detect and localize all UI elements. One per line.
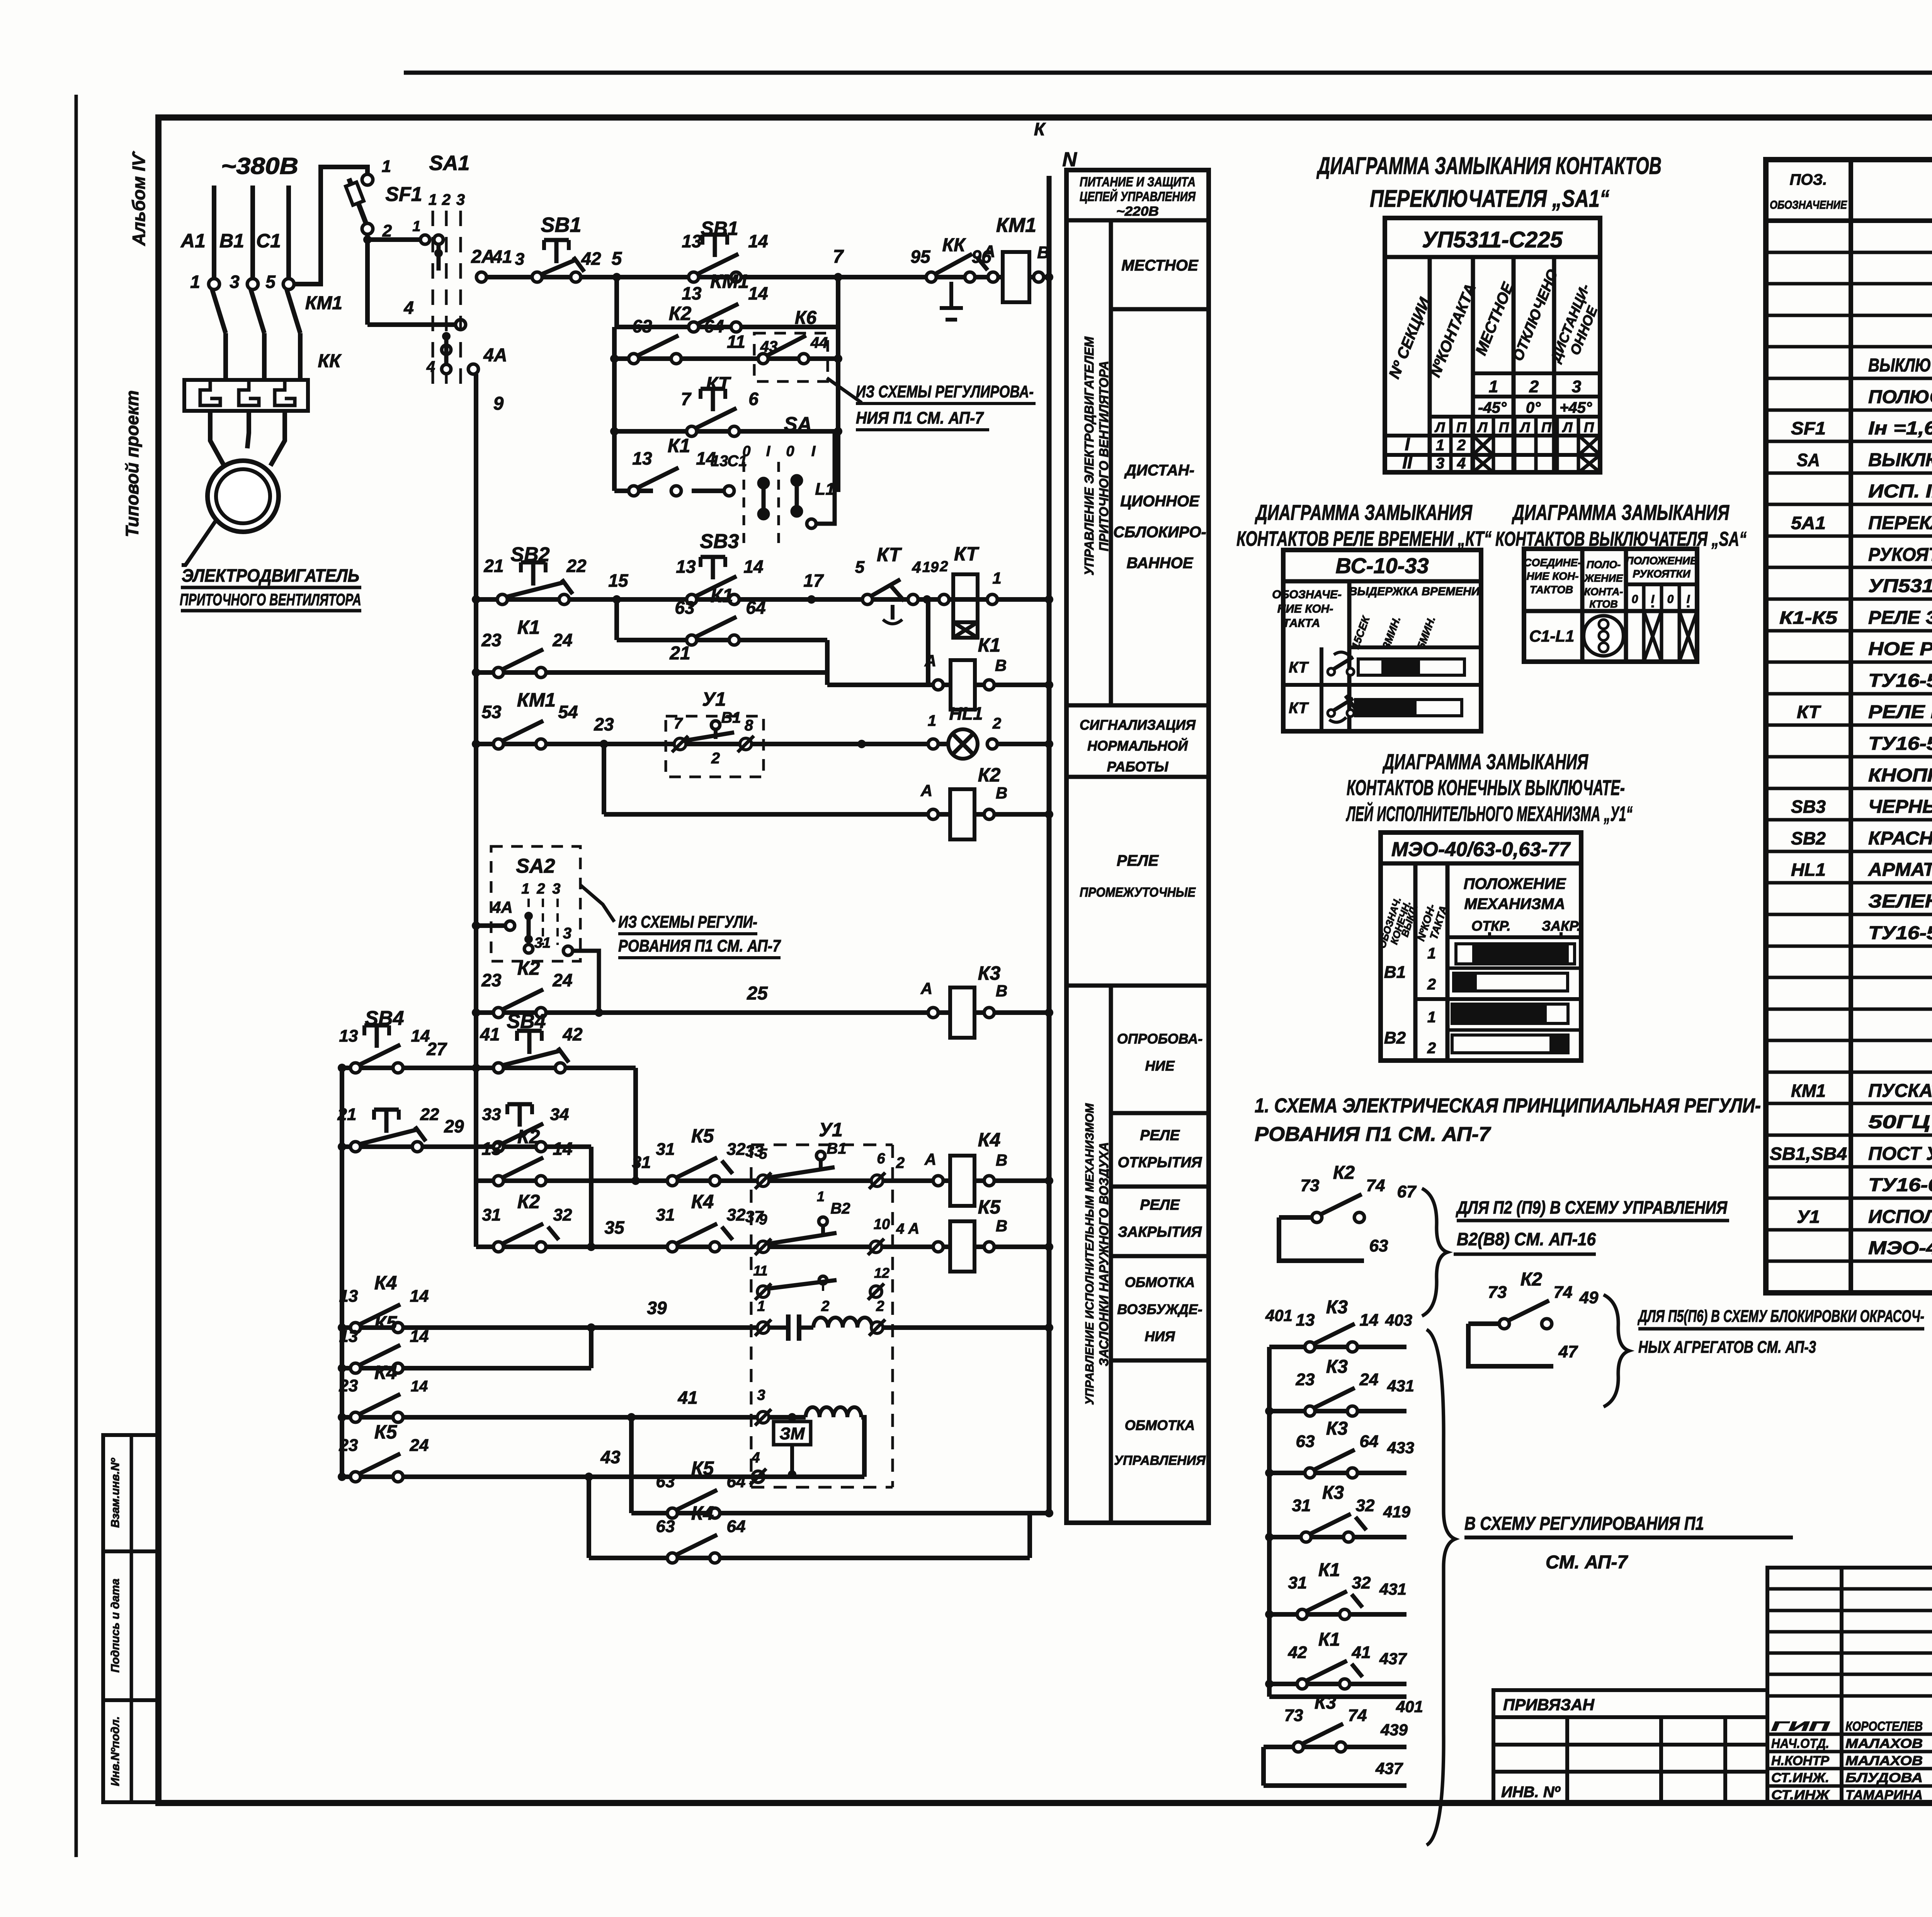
svg-text:64: 64 [746,598,765,618]
terminal A K1 [933,680,943,690]
svg-text:К1: К1 [978,634,1001,656]
wire rung20 [342,1366,591,1371]
contact K2 31-32 break [493,1242,503,1252]
terminal 1 KT [987,594,997,604]
svg-text:ВС-10-33: ВС-10-33 [1335,553,1429,578]
svg-text:23: 23 [481,630,502,650]
svg-text:32: 32 [727,1205,746,1224]
svg-text:П: П [1584,419,1594,435]
terminal B K2 [984,809,994,819]
svg-text:4А: 4А [492,898,513,916]
parts table outer [1766,160,1932,1293]
svg-text:ИСП. III, ~220В, ОСТ16.0.526.0: ИСП. III, ~220В, ОСТ16.0.526.001-77 [1868,481,1932,502]
svg-text:КТ: КТ [706,373,731,395]
svg-text:14: 14 [748,283,768,303]
motor label leader [182,520,216,565]
svg-text:ДЛЯ П2 (П9) В СХЕМУ УПРАВЛЕНИЯ: ДЛЯ П2 (П9) В СХЕМУ УПРАВЛЕНИЯ [1456,1197,1728,1217]
svg-text:I: I [1405,434,1410,454]
svg-text:К4: К4 [374,1362,397,1383]
wire rung1 [481,275,993,279]
svg-text:КОРОСТЕЛЕВ: КОРОСТЕЛЕВ [1845,1719,1923,1734]
svg-text:N: N [1062,148,1077,171]
svg-text:КНОПКА КЕ-011У3, ИСП.2, ТУ16-6: КНОПКА КЕ-011У3, ИСП.2, ТУ16-642.015-84 [1868,765,1932,786]
svg-text:АРМАТУРА СВЕТОСИГНАЛЬНАЯ С: АРМАТУРА СВЕТОСИГНАЛЬНАЯ С [1868,860,1932,880]
terminal B KM1 [1034,272,1044,282]
contact KT delayed [687,426,697,436]
svg-text:7: 7 [833,247,844,267]
svg-text:I: I [1687,593,1690,606]
svg-text:14: 14 [748,231,768,251]
svg-text:К2: К2 [517,1126,540,1147]
svg-text:HL1: HL1 [1791,860,1826,880]
wire rung15 [342,1144,591,1149]
svg-text:SB3: SB3 [700,530,739,553]
wire K1 coil line [827,683,933,687]
svg-text:ПРИТОЧНОГО ВЕНТИЛЯТОРА: ПРИТОЧНОГО ВЕНТИЛЯТОРА [180,591,361,609]
svg-text:ПОЛОЖЕНИЕ: ПОЛОЖЕНИЕ [1464,875,1566,892]
svg-text:431: 431 [1379,1580,1406,1598]
wire rung16 [476,1178,933,1183]
limit U1 phi5 [757,1175,769,1187]
svg-text:23: 23 [1296,1370,1315,1389]
svg-text:МЕСТНОЕ: МЕСТНОЕ [1121,257,1199,274]
wire SA to right [807,519,816,528]
button SB1 break [532,272,542,282]
svg-text:В2: В2 [1384,1028,1406,1047]
relay K6 dashed box [754,333,828,381]
svg-text:34: 34 [550,1105,569,1124]
svg-text:64: 64 [727,1472,746,1491]
leader iz shemy SA2 [580,885,614,922]
svg-text:К2: К2 [1520,1269,1543,1290]
svg-text:13: 13 [711,453,728,470]
svg-text:13: 13 [481,1139,502,1159]
svg-text:ТУ16-535.930-76: ТУ16-535.930-76 [1868,923,1932,943]
parts table header row [1766,218,1932,223]
wire to SA pole [692,489,724,493]
SA2 terminal 3 [563,946,573,955]
svg-text:~220В: ~220В [1116,204,1159,219]
svg-text:ПУСКАТЕЛЬ МАГНИТНЫЙ С КАТУШКОЙ: ПУСКАТЕЛЬ МАГНИТНЫЙ С КАТУШКОЙ ~220В, [1868,1080,1932,1101]
contact K4 63-64 [667,1553,677,1563]
svg-text:Подпись и дата: Подпись и дата [109,1578,122,1672]
wire rung19 to bus [883,1325,1049,1330]
svg-text:0: 0 [742,443,750,460]
svg-text:2: 2 [939,558,948,575]
svg-text:5А1: 5А1 [1791,513,1826,533]
svg-text:1: 1 [521,881,529,897]
wire rung8 [476,670,827,675]
svg-text:К2: К2 [517,1191,540,1212]
svg-text:22: 22 [566,556,587,576]
svg-text:РЕЛЕ ЭЛЕКТРОМАГНИТНОЕ УНИВЕРСА: РЕЛЕ ЭЛЕКТРОМАГНИТНОЕ УНИВЕРСАЛЬ- [1868,608,1932,628]
svg-text:2: 2 [821,1298,829,1314]
svg-text:419: 419 [1383,1503,1411,1521]
svg-text:64: 64 [704,316,724,336]
svg-text:ЗАКРЫТИЯ: ЗАКРЫТИЯ [1118,1224,1202,1240]
svg-text:ДИАГРАММА ЗАМЫКАНИЯ КОНТАКТОВ: ДИАГРАММА ЗАМЫКАНИЯ КОНТАКТОВ [1316,153,1662,179]
svg-text:31: 31 [656,1140,675,1159]
svg-text:31: 31 [632,1153,651,1172]
contact K2 13-14 [493,1176,503,1186]
svg-text:С1-L1: С1-L1 [1529,627,1575,645]
fragment K2b brace [1604,1295,1629,1407]
svg-text:ЗАСЛОНКИ НАРУЖНОГО ВОЗДУХА: ЗАСЛОНКИ НАРУЖНОГО ВОЗДУХА [1097,1142,1111,1366]
svg-text:6: 6 [748,389,759,409]
svg-text:ОПРОБОВА-: ОПРОБОВА- [1117,1031,1203,1047]
svg-text:ВЫКЛЮЧАТЕЛЬ ПАКЕТНЫЙ ПВ1-10У3: ВЫКЛЮЧАТЕЛЬ ПАКЕТНЫЙ ПВ1-10У3 00Б, [1868,449,1932,470]
svg-text:ПОЛЮСНЫЙ А63-МУ3, ~220В, ТУ16-: ПОЛЮСНЫЙ А63-МУ3, ~220В, ТУ16-522,110-74 [1868,386,1932,407]
svg-text:В: В [996,982,1007,1000]
svg-text:ВАННОЕ: ВАННОЕ [1127,555,1194,572]
svg-text:ОБМОТКА: ОБМОТКА [1125,1274,1195,1290]
svg-text:2: 2 [1427,1040,1436,1057]
svg-text:СТ.ИНЖ: СТ.ИНЖ [1771,1788,1830,1803]
svg-text:СИГНАЛИЗАЦИЯ: СИГНАЛИЗАЦИЯ [1080,717,1196,733]
wire 43 down [587,1477,591,1558]
svg-text:41: 41 [1352,1643,1371,1662]
svg-text:8: 8 [745,717,753,734]
svg-text:ТУ16-523.331-78: ТУ16-523.331-78 [1868,671,1932,691]
page left trim line [75,95,78,1857]
wire rung10 [476,742,948,746]
contact K4 31-32 break [667,1242,677,1252]
svg-text:В: В [1037,243,1049,262]
svg-text:К1: К1 [668,435,690,456]
svg-text:14: 14 [410,1287,429,1306]
wire rung7 [614,599,619,640]
svg-text:53: 53 [481,702,502,722]
contact K1 63-64 [687,635,697,645]
bar KT2 [1355,700,1462,716]
svg-text:73: 73 [1284,1706,1303,1725]
svg-text:ТУ16-523,476-78: ТУ16-523,476-78 [1868,734,1932,754]
svg-text:3: 3 [1436,455,1444,472]
svg-text:В1: В1 [721,709,741,726]
svg-text:КМ1: КМ1 [1791,1081,1826,1101]
svg-text:24: 24 [552,970,572,990]
svg-text:2: 2 [442,191,451,208]
svg-text:4: 4 [896,1221,904,1237]
svg-text:SB1,SB4: SB1,SB4 [1770,1144,1847,1164]
svg-text:Iн =1,6А, Iотс. = 2,0 Iн: Iн =1,6А, Iотс. = 2,0 Iн [1868,418,1932,439]
svg-text:ПЕРЕКЛЮЧАТЕЛЯ „SA1“: ПЕРЕКЛЮЧАТЕЛЯ „SA1“ [1370,186,1609,212]
svg-text:УПРАВЛЕНИЕ ЭЛЕКТРОДВИГАТЕЛЕМ: УПРАВЛЕНИЕ ЭЛЕКТРОДВИГАТЕЛЕМ [1082,336,1096,575]
svg-text:П: П [1541,419,1552,435]
EM brake box [774,1422,811,1445]
svg-text:7: 7 [681,389,692,409]
svg-text:3: 3 [456,191,465,208]
cell obmotka vozbuzhdeniya [1111,1359,1209,1363]
svg-text:2: 2 [1427,976,1436,993]
svg-text:3: 3 [757,1387,765,1403]
button make 33-34 [493,1142,503,1152]
svg-text:SB1: SB1 [541,213,581,237]
svg-text:27: 27 [426,1039,447,1059]
svg-text:2: 2 [896,1154,905,1171]
svg-text:64: 64 [1360,1432,1379,1451]
svg-text:К3: К3 [1322,1483,1344,1503]
svg-text:54: 54 [558,702,578,722]
K3 rung 401 [1269,1345,1406,1349]
svg-text:А: А [920,979,932,998]
terminal B K1 [984,680,994,690]
svg-text:14: 14 [410,1327,429,1346]
coil K2 [950,789,975,839]
svg-text:КТ: КТ [1289,659,1309,676]
svg-text:9: 9 [759,1212,767,1228]
svg-text:ЦИОННОЕ: ЦИОННОЕ [1120,493,1200,510]
terminal A K4 [933,1176,943,1186]
svg-text:ДИАГРАММА ЗАМЫКАНИЯ: ДИАГРАММА ЗАМЫКАНИЯ [1382,749,1588,774]
svg-text:МАЛАХОВ: МАЛАХОВ [1845,1754,1923,1768]
svg-text:РЕЛЕ: РЕЛЕ [1140,1127,1180,1144]
coil KT [953,574,978,622]
svg-text:ПИТАНИЕ И ЗАЩИТА: ПИТАНИЕ И ЗАЩИТА [1080,175,1196,189]
SA2 pole [524,912,533,920]
svg-text:ЖЕНИЕ: ЖЕНИЕ [1583,572,1623,584]
svg-text:21: 21 [483,556,503,576]
svg-text:БЛУДОВА: БЛУДОВА [1845,1771,1923,1785]
svg-text:63: 63 [675,598,695,618]
wire rung5 [614,489,653,493]
svg-text:ИЗ СХЕМЫ РЕГУЛИРОВА-: ИЗ СХЕМЫ РЕГУЛИРОВА- [856,382,1034,401]
svg-text:33: 33 [482,1105,501,1124]
svg-text:В1: В1 [1384,963,1406,982]
contact K2 63-64 [629,354,639,364]
svg-text:2А: 2А [471,247,495,267]
svg-text:А: А [908,1220,920,1237]
wire rung22 [342,1474,765,1479]
svg-text:РОВАНИЯ П1 СМ. АП-7: РОВАНИЯ П1 СМ. АП-7 [618,936,781,955]
limit U1 phi9 [757,1241,769,1253]
svg-text:КТ: КТ [877,544,902,565]
svg-text:К2: К2 [978,764,1001,786]
svg-text:ЗЕЛЕНОЙ ЛИНЗОЙ АС12013У2,~220В: ЗЕЛЕНОЙ ЛИНЗОЙ АС12013У2,~220В, [1868,890,1932,912]
svg-text:МЭО-40/63-0,63-77: МЭО-40/63-0,63-77 [1868,1238,1932,1258]
SA pole1 [759,478,768,488]
svg-text:ИЗ СХЕМЫ РЕГУЛИ-: ИЗ СХЕМЫ РЕГУЛИ- [618,913,757,931]
svg-text:63: 63 [1369,1236,1388,1255]
svg-text:32: 32 [727,1140,746,1159]
svg-text:39: 39 [647,1298,667,1318]
svg-text:41: 41 [480,1024,500,1044]
svg-text:КМ1: КМ1 [996,214,1036,237]
breaker SF1 [362,174,373,185]
wire rung13 [476,1010,928,1015]
svg-text:В: В [996,1151,1007,1169]
node after U1 [857,740,866,748]
limit contact B1 lower [816,1151,825,1160]
svg-text:СБЛОКИРО-: СБЛОКИРО- [1113,524,1206,541]
svg-text:63: 63 [656,1517,675,1536]
svg-text:II: II [1402,452,1413,472]
SA pole2 [792,476,801,485]
node 23 [600,740,608,748]
svg-text:В2: В2 [830,1200,850,1217]
bus far-left vertical [340,1068,344,1477]
phase line C1 [286,186,291,284]
table KT diagram [1283,550,1481,731]
wire rung2 selfhold [614,277,619,327]
svg-text:1: 1 [1427,1009,1436,1026]
bar KT1 [1358,659,1464,675]
svg-text:403: 403 [1385,1311,1412,1329]
svg-text:13: 13 [682,283,702,303]
svg-text:4: 4 [1457,455,1466,472]
svg-text:24: 24 [552,630,572,650]
svg-text:ВЫДЕРЖКА ВРЕМЕНИ: ВЫДЕРЖКА ВРЕМЕНИ [1349,585,1480,598]
svg-text:РУКОЯТКИ: РУКОЯТКИ [1633,568,1690,580]
svg-text:SB3: SB3 [1791,797,1826,817]
function column header cell [1066,218,1209,223]
svg-text:29: 29 [444,1116,464,1136]
svg-text:Альбом IѴ: Альбом IѴ [129,151,149,246]
limit phi4 [752,1471,764,1483]
contact SB1 make [689,272,699,282]
svg-text:SA2: SA2 [516,855,555,877]
actuator U1 dashed boundary [750,1145,753,1487]
svg-text:2: 2 [1457,437,1466,454]
svg-text:УП5311-С225, ТУ16-524.074-75: УП5311-С225, ТУ16-524.074-75 [1868,576,1932,596]
svg-text:ОТКРЫТИЯ: ОТКРЫТИЯ [1118,1154,1202,1171]
SA1 pole contacts row4 [442,345,451,354]
terminal A K3 [928,1008,938,1018]
function column divider vertical [1109,220,1113,705]
fragment K2b wire [1468,1321,1499,1326]
svg-text:К4: К4 [978,1129,1001,1151]
svg-text:5: 5 [265,272,276,292]
svg-text:SF1: SF1 [1791,418,1826,438]
wire winding loop [861,1417,864,1477]
svg-text:95: 95 [910,247,931,267]
svg-text:ЛЕЙ ИСПОЛНИТЕЛЬНОГО МЕХАНИЗМА: ЛЕЙ ИСПОЛНИТЕЛЬНОГО МЕХАНИЗМА „У1“ [1346,802,1633,826]
contactor KM1 main contacts [212,289,226,333]
contact K6 43-44 [758,354,768,364]
data row I [1385,453,1600,457]
limit phi1 [757,1322,769,1333]
svg-text:В1: В1 [827,1140,846,1157]
table SA1 diagram [1385,218,1600,472]
svg-text:1: 1 [928,712,936,729]
wire rung11 [602,744,606,814]
rows MEO [1415,997,1581,1001]
svg-text:401: 401 [1265,1306,1293,1325]
svg-text:43: 43 [760,338,778,355]
svg-text:2: 2 [876,1298,884,1314]
svg-text:32: 32 [1352,1573,1371,1592]
table MEO diagram [1381,833,1581,1061]
svg-text:ТУ16-642.006-83: ТУ16-642.006-83 [1868,1175,1932,1195]
lamp HL1 [928,739,938,749]
svg-text:А: А [983,242,995,261]
svg-text:1: 1 [412,218,420,235]
svg-text:SF1: SF1 [385,183,422,206]
svg-text:К3: К3 [1326,1357,1348,1377]
KK trip linkage [949,282,953,308]
svg-text:СМ. АП-7: СМ. АП-7 [1546,1552,1628,1573]
svg-text:21: 21 [669,643,690,664]
svg-text:13: 13 [339,1327,358,1346]
wire SA2-3 down to rung13 [573,951,599,1013]
svg-text:15: 15 [608,570,629,591]
svg-text:У1: У1 [702,688,726,710]
svg-text:П: П [1456,419,1467,435]
contact K4 13-14 [350,1323,361,1333]
svg-text:ДИАГРАММА ЗАМЫКАНИЯ: ДИАГРАММА ЗАМЫКАНИЯ [1255,500,1473,524]
svg-text:РУКОЯТКОЙ ОВАЛЬНОЙ ФОРМЫ: РУКОЯТКОЙ ОВАЛЬНОЙ ФОРМЫ [1868,544,1932,565]
X marks SA [1644,611,1662,662]
function column frame [1066,170,1209,1523]
svg-text:П: П [1499,419,1509,435]
cell oprobovanie [1111,1111,1209,1115]
svg-text:4: 4 [751,1450,760,1466]
svg-text:12: 12 [874,1265,889,1281]
svg-text:2: 2 [1529,377,1539,396]
svg-text:-45°: -45° [1478,399,1507,416]
wire rung4 [614,429,838,434]
svg-text:К1: К1 [1318,1629,1340,1650]
capacitor [769,1326,787,1330]
svg-text:63: 63 [656,1472,675,1491]
svg-text:SB2: SB2 [510,543,549,566]
inventory strip table [103,1435,158,1802]
wire rung24 [589,1556,1030,1560]
svg-text:41: 41 [677,1388,697,1408]
svg-text:11: 11 [727,332,745,352]
K3 brace [1427,1330,1455,1845]
svg-text:К: К [1034,119,1046,139]
svg-text:ТАМАРИНА: ТАМАРИНА [1845,1788,1923,1803]
svg-text:Л: Л [1562,419,1573,435]
svg-text:439: 439 [1380,1721,1408,1739]
svg-text:ВОЗБУЖДЕ-: ВОЗБУЖДЕ- [1117,1301,1202,1317]
svg-text:0°: 0° [1526,399,1541,416]
svg-text:I: I [811,443,816,460]
svg-text:В2(В8) СМ. АП-16: В2(В8) СМ. АП-16 [1457,1229,1596,1249]
svg-text:ПЕРЕКЛЮЧАТЕЛЬ УНИВЕРСАЛЬНЫЙ С: ПЕРЕКЛЮЧАТЕЛЬ УНИВЕРСАЛЬНЫЙ С [1868,512,1932,533]
svg-text:43: 43 [600,1447,621,1467]
svg-text:431: 431 [1387,1377,1414,1395]
svg-text:РЕЛЕ ВРЕМЕНИ ВС-10-33, ~220В,: РЕЛЕ ВРЕМЕНИ ВС-10-33, ~220В, 50ГЦ, [1868,702,1932,722]
cell mestnoe [1111,307,1209,312]
svg-text:Взам.инв.Nº: Взам.инв.Nº [109,1457,122,1528]
svg-text:КТ: КТ [1797,702,1821,722]
svg-text:22: 22 [420,1105,439,1124]
svg-text:23: 23 [339,1376,358,1395]
svg-text:14: 14 [411,1378,428,1395]
svg-text:1: 1 [817,1188,825,1204]
svg-text:14: 14 [1360,1311,1379,1330]
svg-text:КМ1: КМ1 [710,271,749,292]
svg-text:32: 32 [1356,1496,1375,1515]
svg-text:49: 49 [1579,1288,1599,1307]
cell distantsionnoe [1066,703,1209,708]
svg-text:4: 4 [912,558,921,576]
svg-text:3: 3 [515,250,524,269]
page top edge line [404,71,1932,75]
svg-text:23: 23 [594,714,614,734]
svg-text:ЗАКР.: ЗАКР. [1542,918,1581,934]
contact K4 23-24 [350,1412,361,1422]
svg-text:К5: К5 [691,1125,714,1147]
svg-text:К3: К3 [1315,1692,1337,1713]
svg-text:К4: К4 [691,1502,714,1524]
svg-text:К5: К5 [374,1421,398,1443]
svg-text:73: 73 [1301,1176,1320,1195]
svg-text:74: 74 [1348,1706,1367,1725]
svg-text:31: 31 [1288,1573,1307,1592]
